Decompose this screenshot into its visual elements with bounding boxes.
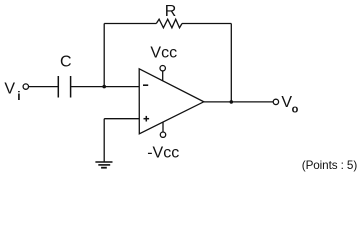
capacitor C right plate [70,76,72,98]
wire node A up [103,24,105,87]
svg-text:o: o [292,104,299,116]
svg-text:V: V [4,80,15,97]
ground bar 1 [95,161,112,163]
-Vcc pin stub [162,122,164,132]
Vcc pin terminal circle [160,66,165,71]
op-amp U1 triangle [139,69,204,134]
svg-text:i: i [17,89,20,103]
node A junction dot [102,85,106,89]
wire non-inverting input [104,118,139,120]
wire Vi to C [29,86,59,88]
svg-text:R: R [165,3,177,20]
svg-text:C: C [60,54,72,71]
capacitor C left plate [57,76,59,98]
ground bar 3 [101,167,107,169]
resistor R zigzag [156,19,182,28]
wire down to ground [103,119,105,162]
svg-text:Vcc: Vcc [150,44,177,61]
Vcc pin stub [162,71,164,81]
wire top left to resistor [104,23,156,25]
wire right vertical feedback [230,24,232,102]
-Vcc pin terminal circle [160,132,165,137]
wire resistor to right corner [182,23,231,25]
terminal Vo (open circle) [273,99,278,104]
op-amp non-inverting input plus sign [144,118,150,120]
wire C to op-amp inverting input [71,86,140,88]
wire op-amp output to Vo [204,101,273,103]
ground bar 2 [98,164,110,166]
terminal Vi (open circle) [23,84,28,89]
svg-text:-Vcc: -Vcc [147,144,179,161]
svg-text:(Points : 5): (Points : 5) [302,159,358,172]
op-amp inverting input minus sign [143,84,148,86]
node B junction dot [230,100,234,104]
